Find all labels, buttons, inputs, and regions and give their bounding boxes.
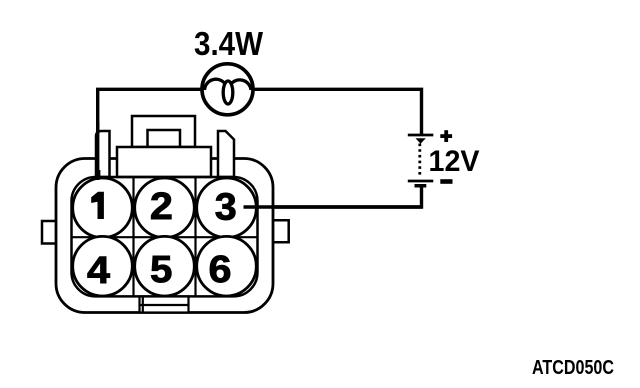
svg-text:4: 4	[87, 250, 110, 292]
svg-text:3.4W: 3.4W	[194, 25, 264, 62]
svg-text:12V: 12V	[429, 145, 480, 178]
svg-text:5: 5	[150, 249, 172, 291]
svg-text:2: 2	[150, 186, 173, 228]
svg-text:3: 3	[215, 186, 237, 228]
svg-text:6: 6	[208, 249, 231, 291]
svg-text:ATCD050C: ATCD050C	[532, 357, 614, 379]
